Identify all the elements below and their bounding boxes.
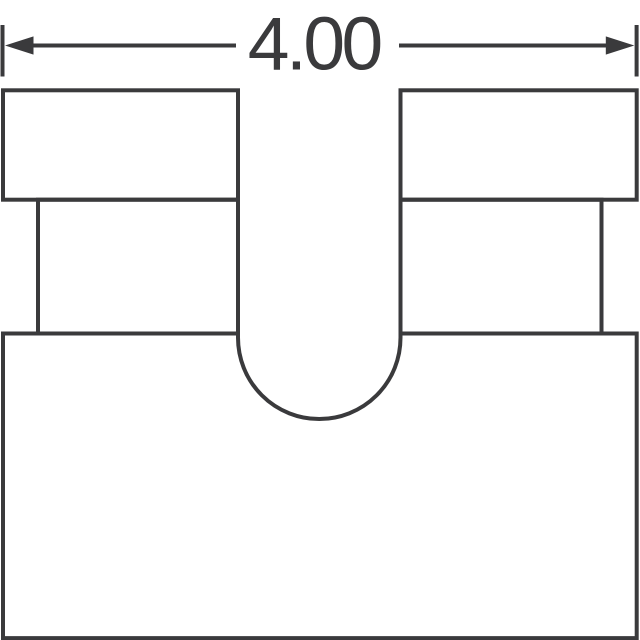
dimension line right segment xyxy=(399,44,612,48)
body mid-right rectangle xyxy=(401,200,602,334)
body top-right cap rectangle xyxy=(401,90,637,199)
svg-text:4.00: 4.00 xyxy=(248,1,381,85)
dimension extension line left xyxy=(1,25,5,77)
body top-left cap rectangle xyxy=(3,90,238,199)
dimension extension line right xyxy=(635,25,639,77)
dimension arrowhead right xyxy=(606,36,635,54)
body bottom block outline xyxy=(3,334,637,639)
dimension line left segment xyxy=(28,44,236,48)
body mid-left rectangle xyxy=(38,200,238,334)
U-slot outline xyxy=(238,90,401,419)
dimension arrowhead left xyxy=(5,36,34,54)
